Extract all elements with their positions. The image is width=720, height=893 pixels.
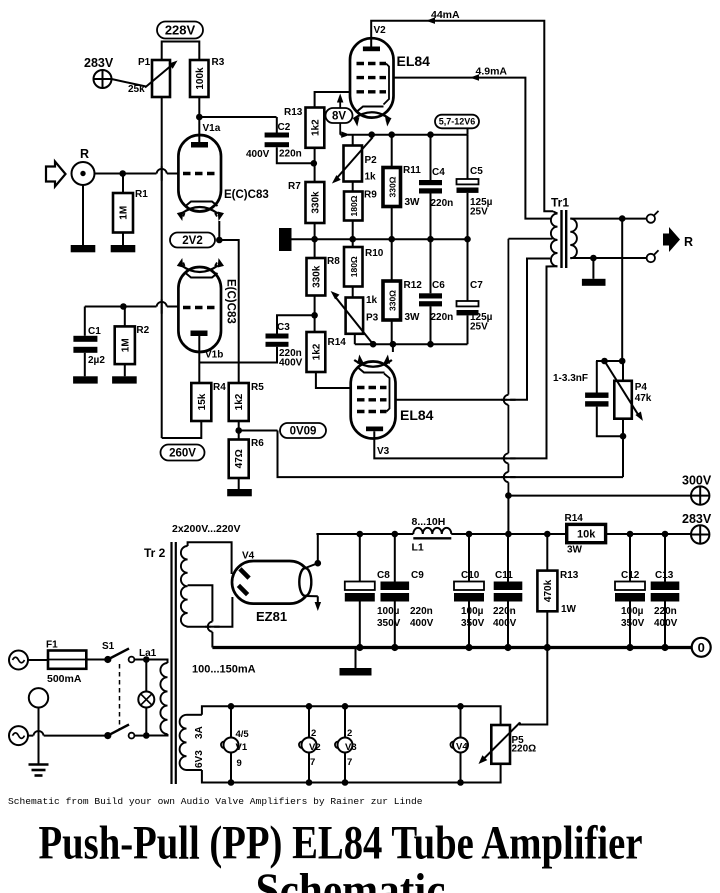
svg-text:S1: S1 xyxy=(102,641,115,652)
svg-text:R14: R14 xyxy=(328,337,347,348)
svg-text:R5: R5 xyxy=(251,382,264,393)
wire C5 bottom xyxy=(467,193,469,239)
wire fuse to switch xyxy=(86,659,105,661)
resistor R11 330ohm 3W xyxy=(383,168,401,207)
svg-text:220n: 220n xyxy=(431,198,454,209)
svg-text:8...10H: 8...10H xyxy=(412,516,446,528)
rail after 10k to 283V terminal xyxy=(606,533,691,535)
wire R8 bottom to C3 R14 node xyxy=(314,296,316,333)
capacitor C9 220n 400V xyxy=(381,582,410,591)
wire HV bottom to EZ81 anode 2 xyxy=(188,597,233,627)
heater top bus xyxy=(202,706,501,725)
svg-text:1k2: 1k2 xyxy=(311,343,322,360)
svg-text:1k: 1k xyxy=(365,172,377,183)
svg-text:350V: 350V xyxy=(461,618,485,629)
svg-text:V1: V1 xyxy=(236,742,248,753)
svg-text:V4: V4 xyxy=(242,551,255,562)
node V1a anode junction xyxy=(196,114,203,121)
Tr1 center tap to B+ xyxy=(508,238,552,240)
capacitor C7 125u 25V xyxy=(457,301,479,306)
svg-text:Tr1: Tr1 xyxy=(551,196,569,210)
wire V1b grid to C1 R2 node xyxy=(85,306,179,308)
svg-text:EL84: EL84 xyxy=(397,53,431,69)
svg-text:R7: R7 xyxy=(288,181,301,192)
svg-text:P4: P4 xyxy=(635,382,648,393)
capacitor C11 220n 400V xyxy=(494,582,523,591)
resistor R9 180ohm xyxy=(344,192,363,221)
AC source live xyxy=(9,651,28,670)
V2 anode lead xyxy=(370,38,372,46)
wire R11 top xyxy=(391,135,393,168)
svg-text:100µ: 100µ xyxy=(377,606,400,617)
heater V2 xyxy=(308,706,310,737)
svg-text:220n: 220n xyxy=(493,606,516,617)
svg-text:R8: R8 xyxy=(327,256,340,267)
node 2V2 oval xyxy=(170,233,215,248)
svg-text:2x200V...220V: 2x200V...220V xyxy=(172,523,241,535)
node input grid junction xyxy=(119,170,126,177)
wire R1 bottom xyxy=(122,233,124,246)
wire C4 bottom xyxy=(430,194,432,240)
Tr1 secondary winding xyxy=(570,219,577,259)
wire R12 bus stub xyxy=(392,344,394,352)
V1b cathode arc top xyxy=(182,266,218,273)
switch link dashed xyxy=(119,664,121,730)
svg-text:47k: 47k xyxy=(635,393,652,404)
svg-text:350V: 350V xyxy=(377,618,401,629)
svg-text:R10: R10 xyxy=(365,248,384,259)
V2 cathode arc xyxy=(354,112,391,119)
resistor R12 330ohm 3W xyxy=(383,281,401,320)
svg-text:P3: P3 xyxy=(366,313,379,324)
capacitor C8 100u 350V xyxy=(345,582,375,591)
wire P4 top lead xyxy=(622,361,624,381)
wire R10 to P3 xyxy=(352,287,354,298)
triode V1a E(C)C83 xyxy=(178,135,221,212)
ground under R6 xyxy=(227,489,252,496)
wire P2 to R9 xyxy=(352,182,354,192)
resistor R2 1M xyxy=(115,326,135,364)
capacitor C2 220n 400V xyxy=(265,133,289,138)
ground under R2 xyxy=(112,376,137,383)
ground under jack xyxy=(71,245,96,252)
svg-text:47Ω: 47Ω xyxy=(234,449,245,468)
filter rail wire xyxy=(316,533,413,535)
svg-text:300V: 300V xyxy=(682,474,712,488)
svg-text:L1: L1 xyxy=(412,542,424,554)
wire R13 top to V2 grid xyxy=(315,92,350,108)
V1a grid dashed line xyxy=(183,172,217,175)
node 5,7-12V6 oval xyxy=(435,115,479,129)
EZ81 cathode ellipse xyxy=(299,568,311,596)
wire R7 bottom xyxy=(314,223,316,239)
wire C1 top xyxy=(84,307,86,336)
svg-text:C5: C5 xyxy=(470,166,483,177)
V3 grid dashed rows xyxy=(357,386,387,389)
resistor R14 1k2 grid xyxy=(307,332,326,372)
capacitor C5 125u 25V xyxy=(457,179,479,184)
V1b anode plate bar xyxy=(191,331,208,337)
Tr1 core xyxy=(560,210,562,268)
wire heater winding bottom stub xyxy=(187,769,202,771)
wire P4 to feedback line xyxy=(622,436,624,477)
svg-text:25k: 25k xyxy=(128,84,145,95)
wire C2 bottom to R13 R7 node xyxy=(277,147,314,163)
resistor R13 1k2 xyxy=(306,108,325,148)
Tr2 heater winding 6V3 3A xyxy=(180,715,187,770)
svg-text:283V: 283V xyxy=(84,56,114,70)
wire cap top xyxy=(596,361,598,393)
svg-text:400V: 400V xyxy=(279,358,303,369)
svg-text:400V: 400V xyxy=(493,618,517,629)
V3 anode bar xyxy=(366,427,383,432)
svg-text:100µ: 100µ xyxy=(621,606,644,617)
svg-text:C4: C4 xyxy=(432,167,445,178)
wire V1b anode to R4 xyxy=(198,336,200,383)
wire B+ to 300V terminal xyxy=(508,495,691,497)
wire R11 bottom xyxy=(391,207,393,240)
wire switch pole 2 to primary xyxy=(134,735,146,737)
wire P4 bottom xyxy=(622,419,624,437)
wire HV center tap to 0V xyxy=(188,585,213,647)
svg-text:500mA: 500mA xyxy=(47,673,82,685)
ground output xyxy=(582,279,606,286)
svg-text:R13: R13 xyxy=(560,570,579,581)
V1a cathode arrow right xyxy=(215,213,217,217)
wire R4 bottom to 260V node xyxy=(162,421,202,438)
wire 2V2 node to R5 xyxy=(219,240,238,383)
svg-text:R11: R11 xyxy=(403,165,421,176)
measurement arrow 8V xyxy=(339,97,341,135)
V2 cathode arrow left xyxy=(356,119,358,122)
capacitor C4 220n xyxy=(419,180,442,185)
svg-text:R2: R2 xyxy=(136,325,149,336)
V2 beam plate bracket xyxy=(384,64,390,105)
resistor R5 1k2 xyxy=(229,383,249,421)
svg-text:R1: R1 xyxy=(135,189,148,200)
svg-text:V2: V2 xyxy=(374,25,387,36)
svg-text:100µ: 100µ xyxy=(461,606,484,617)
svg-text:400V: 400V xyxy=(410,618,434,629)
svg-text:2: 2 xyxy=(311,728,316,739)
wire bus end to C5 xyxy=(467,135,469,179)
svg-text:100...150mA: 100...150mA xyxy=(192,664,256,676)
svg-text:470k: 470k xyxy=(543,579,554,602)
EZ81 cathode output wire xyxy=(305,563,318,568)
V1a cathode arrow left xyxy=(183,213,184,217)
ground under 0V rail xyxy=(355,648,357,669)
wire P2 top xyxy=(352,135,354,146)
svg-text:R3: R3 xyxy=(212,57,225,68)
wire secondary to ground xyxy=(592,258,594,279)
svg-text:Schematic from Build your own: Schematic from Build your own Audio Valv… xyxy=(8,796,423,807)
wire P5 wiper to 0V rail xyxy=(520,648,547,725)
output terminal bottom xyxy=(647,254,655,262)
EZ81 anode bar 2 xyxy=(237,584,249,596)
svg-text:9: 9 xyxy=(237,758,242,769)
V2 anode bar xyxy=(363,47,380,52)
svg-text:P1: P1 xyxy=(138,57,151,68)
svg-text:2µ2: 2µ2 xyxy=(88,355,105,366)
svg-text:228V: 228V xyxy=(165,22,196,37)
capacitor C10 100u 350V xyxy=(454,582,484,591)
svg-text:Tr 2: Tr 2 xyxy=(144,546,166,560)
wire C6 bottom xyxy=(430,306,432,344)
resistor R4 15k xyxy=(191,383,211,421)
wire C2 top xyxy=(276,117,278,133)
wire neutral to switch pole 2 xyxy=(28,735,105,737)
svg-text:Schematic: Schematic xyxy=(256,864,446,893)
resistor R6 47ohm xyxy=(229,440,249,479)
svg-text:C9: C9 xyxy=(411,570,424,581)
wire R1 top xyxy=(122,174,124,194)
V3 cathode arrow right xyxy=(386,360,388,364)
V1a cathode arc xyxy=(182,207,218,214)
wire to 0V09 oval xyxy=(239,430,278,432)
wire cap bottom xyxy=(597,407,623,437)
EZ81 anode bar 1 xyxy=(238,567,250,579)
wire C4 top xyxy=(430,135,432,180)
capacitor C3 220n 400V xyxy=(266,334,289,339)
wire R2 top xyxy=(124,307,126,327)
svg-text:R12: R12 xyxy=(404,280,423,291)
potentiometer P3 1k xyxy=(346,298,364,334)
svg-text:V4: V4 xyxy=(456,742,468,753)
wire B+ down to filter rail xyxy=(507,496,509,534)
V1b cathode arrow right xyxy=(215,263,217,267)
V3 cathode arrow left xyxy=(359,360,361,364)
wire 283V to P1 wiper xyxy=(112,79,147,87)
svg-text:1k: 1k xyxy=(366,295,378,306)
svg-text:330k: 330k xyxy=(311,265,322,288)
svg-text:V1a: V1a xyxy=(203,123,221,134)
wire cathode to heater arrow xyxy=(305,595,318,597)
heater V4 xyxy=(460,706,462,737)
wire feedback from 0V09 node xyxy=(278,431,624,478)
resistor R3 100k xyxy=(190,60,209,97)
Tr2 core xyxy=(170,542,172,784)
Tr1 primary winding xyxy=(551,214,558,267)
wire R12 bottom xyxy=(391,320,393,344)
heater V3 xyxy=(344,706,346,737)
svg-text:C10: C10 xyxy=(461,570,480,581)
svg-text:220Ω: 220Ω xyxy=(512,744,537,755)
svg-text:1k2: 1k2 xyxy=(310,119,321,136)
AC source neutral xyxy=(9,726,28,745)
svg-text:220n: 220n xyxy=(279,149,302,160)
wire C1 bottom xyxy=(84,353,86,377)
pentode V3 EL84 xyxy=(351,362,396,439)
svg-text:R9: R9 xyxy=(364,190,377,201)
wire HV top to EZ81 anode xyxy=(188,542,232,574)
cathode bus V2 xyxy=(348,134,468,136)
wire P1 bottom rail xyxy=(161,97,163,438)
svg-text:3W: 3W xyxy=(567,545,583,556)
svg-text:R6: R6 xyxy=(251,438,264,449)
svg-text:1W: 1W xyxy=(561,604,577,615)
wire 228V to P1 and R3 xyxy=(162,42,200,61)
wire primary top xyxy=(146,660,167,664)
wire to fuse xyxy=(28,659,48,661)
potentiometer P1 xyxy=(152,60,170,97)
V3 beam plate bracket xyxy=(384,374,390,412)
svg-text:V3: V3 xyxy=(345,742,357,753)
wire jack to grid node xyxy=(95,173,123,175)
capacitor C12 100u 350V xyxy=(615,582,645,591)
svg-text:15k: 15k xyxy=(197,393,208,410)
svg-text:C1: C1 xyxy=(88,326,101,337)
svg-text:330Ω: 330Ω xyxy=(387,176,397,197)
wire V1a grid to input node xyxy=(123,173,179,175)
node 260V oval xyxy=(161,445,205,461)
svg-text:V3: V3 xyxy=(377,446,390,457)
svg-text:330Ω: 330Ω xyxy=(387,290,397,311)
V1b grid dashed line xyxy=(183,306,217,309)
svg-text:3W: 3W xyxy=(405,312,421,323)
wire jack sleeve to ground xyxy=(82,185,84,245)
resistor R13 470k 1W xyxy=(537,571,557,612)
Tr2 mains primary winding xyxy=(160,663,167,734)
node P4 top xyxy=(596,360,622,362)
wire P3 bottom xyxy=(354,334,356,344)
svg-text:180Ω: 180Ω xyxy=(349,195,359,216)
svg-text:0: 0 xyxy=(698,640,705,655)
svg-text:400V: 400V xyxy=(246,149,270,160)
potentiometer P2 1k xyxy=(344,146,363,182)
wire C7 bottom xyxy=(467,315,469,344)
svg-text:8V: 8V xyxy=(332,110,346,122)
wire R14 bottom to V3 grid xyxy=(316,372,352,388)
svg-text:180Ω: 180Ω xyxy=(349,256,359,277)
svg-text:2: 2 xyxy=(347,728,352,739)
V2 cathode arrow right xyxy=(386,119,388,122)
wire C3 top to R8 R14 node xyxy=(277,315,315,333)
svg-text:220n: 220n xyxy=(410,606,433,617)
svg-text:V1b: V1b xyxy=(205,350,223,361)
ground under R1 xyxy=(111,245,136,252)
capacitor C6 220n xyxy=(419,293,442,298)
svg-text:4/5: 4/5 xyxy=(236,729,250,740)
wire C3 bottom to V1b anode xyxy=(199,347,277,363)
rectifier V4 EZ81 xyxy=(232,561,311,604)
node V1b grid junction xyxy=(120,303,127,310)
wire switch to La1 node xyxy=(134,659,167,661)
wire center tap down xyxy=(507,239,509,496)
svg-text:220n: 220n xyxy=(431,312,454,323)
svg-text:EL84: EL84 xyxy=(400,407,434,423)
svg-text:R13: R13 xyxy=(284,107,303,118)
node B+ junction xyxy=(505,492,512,499)
heater V1 xyxy=(230,706,232,737)
wire V3 anode to Tr1 xyxy=(374,266,557,458)
Tr1 primary top lead xyxy=(553,211,558,213)
node R5 R6 junction 0V09 xyxy=(238,421,240,440)
lamp La1 xyxy=(145,660,147,692)
wire R2 bottom xyxy=(124,364,126,376)
speaker arrow R xyxy=(663,227,680,252)
svg-text:R4: R4 xyxy=(213,382,226,393)
resistor R14 10k 3W xyxy=(567,524,606,542)
svg-text:R14: R14 xyxy=(565,513,584,524)
svg-text:330k: 330k xyxy=(310,191,321,214)
resistor R8 330k xyxy=(307,258,326,296)
capacitor C1 2u2 xyxy=(73,336,97,342)
svg-text:2V2: 2V2 xyxy=(182,235,202,247)
wire earth terminal to ground xyxy=(38,708,40,764)
svg-text:44mA: 44mA xyxy=(431,9,460,21)
wire secondary top to output xyxy=(570,218,646,220)
svg-text:Push-Pull (PP) EL84 Tube Ampli: Push-Pull (PP) EL84 Tube Amplifier xyxy=(39,817,643,870)
wire V1a cathode to 2V2 node xyxy=(218,221,220,240)
triode V1b E(C)C83 xyxy=(178,267,221,352)
svg-text:C2: C2 xyxy=(278,122,291,133)
switch S1 pole 2 xyxy=(104,732,111,739)
terminal 0 xyxy=(692,638,711,657)
svg-text:E(C)C83: E(C)C83 xyxy=(225,279,237,324)
svg-text:P2: P2 xyxy=(365,155,378,166)
svg-text:EZ81: EZ81 xyxy=(256,609,287,624)
svg-text:1-3.3nF: 1-3.3nF xyxy=(553,373,588,384)
cathode bus V3 xyxy=(355,343,468,345)
V1a anode plate bar xyxy=(191,142,208,148)
heater bottom bus xyxy=(202,764,501,783)
chassis bar middle bus xyxy=(279,228,292,251)
svg-text:R: R xyxy=(80,147,89,161)
ground under C1 xyxy=(73,376,98,383)
svg-text:C3: C3 xyxy=(277,322,290,333)
middle bus wire xyxy=(292,238,468,240)
svg-text:C7: C7 xyxy=(470,280,483,291)
node 228V label xyxy=(157,22,203,39)
svg-text:R: R xyxy=(684,235,693,249)
svg-text:C11: C11 xyxy=(495,570,513,581)
input signal arrow xyxy=(46,162,66,187)
svg-text:E(C)C83: E(C)C83 xyxy=(224,189,269,201)
svg-text:4.9mA: 4.9mA xyxy=(476,66,508,78)
svg-text:100k: 100k xyxy=(195,67,206,90)
potentiometer P4 47k xyxy=(614,381,632,419)
wire cathode to B+ rail xyxy=(318,534,360,563)
V2 grid dashed rows xyxy=(357,62,387,65)
pentode V2 EL84 xyxy=(350,38,394,117)
wire 44mA V2 anode to Tr1 xyxy=(371,21,553,212)
V3 cathode arc xyxy=(354,360,392,367)
wire secondary bottom to output xyxy=(570,257,646,259)
svg-text:C6: C6 xyxy=(432,280,445,291)
svg-text:6V3: 6V3 xyxy=(194,750,205,768)
svg-text:1M: 1M xyxy=(119,206,130,220)
V1b cathode arrow left xyxy=(183,263,184,267)
svg-text:10k: 10k xyxy=(577,529,596,541)
resistor R10 180ohm xyxy=(344,247,363,287)
wire secondary to P4 xyxy=(621,219,623,361)
output terminal top xyxy=(647,214,655,222)
wire primary bottom xyxy=(146,734,167,736)
0V rail wire xyxy=(212,646,692,649)
svg-text:C8: C8 xyxy=(377,570,390,581)
svg-text:350V: 350V xyxy=(621,618,645,629)
capacitor C13 220n 400V xyxy=(651,582,680,591)
svg-text:25V: 25V xyxy=(470,207,488,218)
svg-text:1M: 1M xyxy=(120,338,131,352)
wire heater winding top stub xyxy=(187,714,202,716)
wire V3 screen to Tr1 tap xyxy=(396,259,551,400)
svg-text:7: 7 xyxy=(347,757,352,768)
svg-text:25V: 25V xyxy=(470,322,488,333)
svg-text:283V: 283V xyxy=(682,512,712,526)
wire 4.9mA V2 screen to Tr1 tap xyxy=(394,78,552,219)
svg-text:F1: F1 xyxy=(46,640,58,651)
